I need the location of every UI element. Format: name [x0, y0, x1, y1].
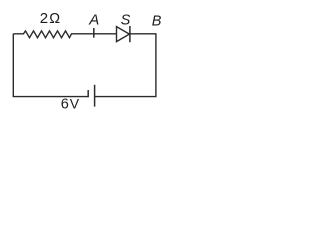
svg-text:A: A	[88, 11, 99, 28]
svg-text:S: S	[121, 13, 131, 29]
svg-text:V: V	[70, 96, 80, 112]
svg-text:B: B	[152, 14, 162, 30]
svg-text:Ω: Ω	[49, 11, 60, 27]
svg-text:2: 2	[40, 10, 48, 27]
svg-text:6: 6	[61, 97, 69, 113]
